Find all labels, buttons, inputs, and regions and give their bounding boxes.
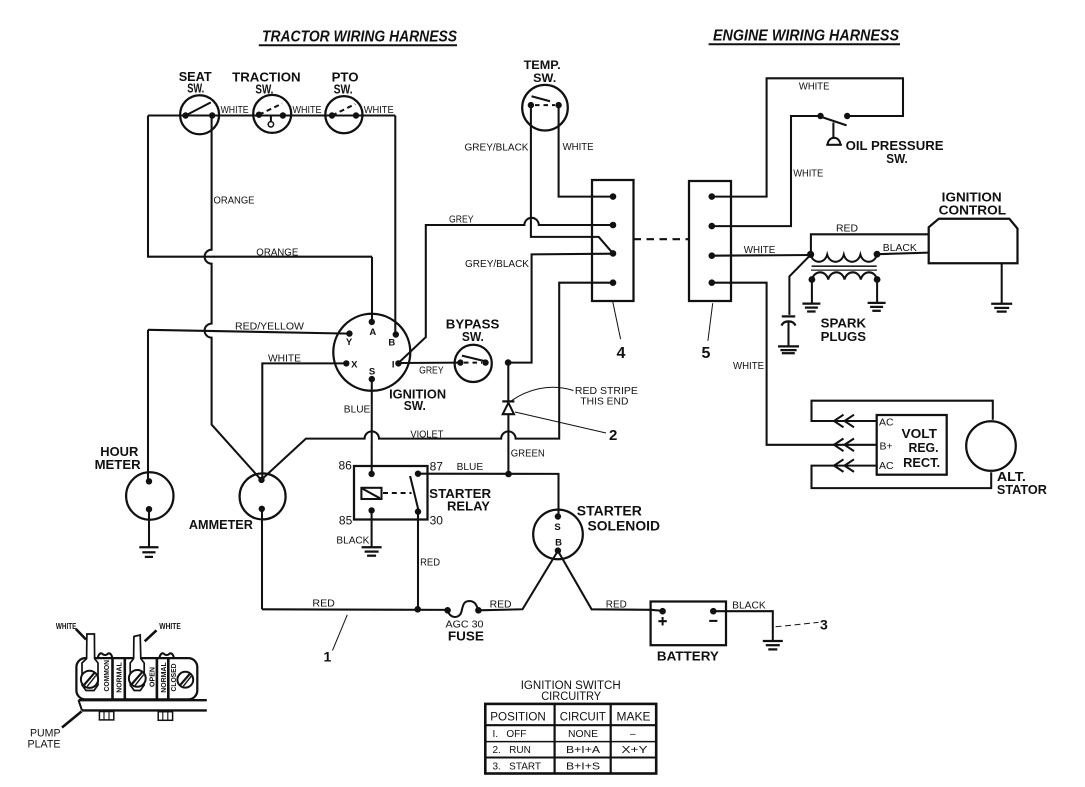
table row 3	[493, 761, 601, 772]
ammeter	[189, 473, 286, 532]
svg-text:CIRCUIT: CIRCUIT	[560, 711, 606, 723]
wire white pin1 to oil pressure right contact	[712, 78, 903, 196]
leader white pump left	[76, 629, 86, 640]
wire orange seat sw down with hops to ammeter	[205, 116, 262, 480]
hour meter	[95, 444, 174, 520]
ignition coil secondary winding	[809, 272, 881, 283]
wire blue ignition S to relay 86	[371, 379, 373, 474]
svg-text:WHITE: WHITE	[221, 105, 249, 116]
battery	[651, 602, 726, 664]
svg-text:86: 86	[339, 458, 353, 472]
wire white pin4 to B+ volt reg	[712, 283, 877, 445]
ground (capacitor)	[778, 346, 799, 353]
svg-text:X+Y: X+Y	[622, 745, 648, 756]
leader white pump right	[145, 630, 157, 641]
svg-text:PLUGS: PLUGS	[821, 329, 867, 344]
pump column bar 1	[111, 658, 114, 699]
wire hour meter to ground	[148, 509, 150, 547]
pump terminal tab 2 white wire	[130, 635, 144, 691]
svg-text:AMMETER: AMMETER	[189, 517, 254, 532]
node coil junction	[807, 251, 814, 258]
wire grey ignition I to bypass	[398, 362, 460, 364]
wire secondary left to ground	[811, 280, 813, 304]
wire red solenoid B to battery +	[558, 551, 663, 611]
volt reg rect box	[877, 415, 947, 475]
label RED STRIPE THIS END	[575, 386, 638, 407]
svg-text:2. RUN: 2. RUN	[493, 745, 531, 756]
wire red/yellow to ignition Y	[148, 330, 349, 334]
wire dashed connector mate	[634, 238, 690, 240]
ground (ignition control)	[991, 304, 1012, 312]
wire B drop from white bus	[394, 116, 396, 335]
svg-text:RECT.: RECT.	[903, 455, 940, 470]
svg-text:MAKE: MAKE	[617, 711, 651, 723]
svg-text:WHITE: WHITE	[793, 169, 823, 180]
leader red stripe this end	[512, 387, 574, 400]
leader 1	[333, 615, 348, 651]
node green/blue junction	[505, 471, 512, 478]
wire white temp sw to connector pin 1	[559, 105, 613, 197]
svg-text:NONE: NONE	[568, 729, 598, 740]
svg-text:REG.: REG.	[909, 440, 939, 455]
svg-text:SW.: SW.	[187, 81, 204, 96]
ground (relay 85)	[362, 547, 382, 555]
diode (red stripe end up)	[502, 401, 514, 414]
wire left vertical seat sw to orange corner	[148, 116, 372, 257]
svg-text:WHITE: WHITE	[733, 361, 764, 372]
svg-text:B+I+S: B+I+S	[566, 761, 600, 772]
svg-text:85: 85	[339, 514, 353, 528]
svg-text:SW.: SW.	[404, 398, 426, 413]
svg-text:WHITE: WHITE	[293, 105, 322, 116]
pump nut 2	[158, 712, 172, 721]
wire green junction to diode	[507, 363, 509, 402]
wire green diode to blue junction	[507, 414, 509, 474]
svg-text:RED/YELLOW: RED/YELLOW	[235, 322, 305, 333]
leader pump plate	[62, 711, 82, 727]
spare terminal bump right	[159, 653, 174, 658]
svg-text:TRACTOR WIRING HARNESS: TRACTOR WIRING HARNESS	[262, 29, 457, 46]
svg-text:SW.: SW.	[255, 81, 273, 96]
svg-text:WHITE: WHITE	[56, 621, 77, 631]
starter relay box	[354, 466, 428, 520]
switch TEMP SW.	[522, 60, 568, 131]
alt stator circle	[966, 421, 1047, 497]
ignition switch circle	[333, 314, 410, 391]
svg-text:CONTROL: CONTROL	[939, 202, 1007, 217]
table title IGNITION SWITCH CIRCUITRY	[521, 680, 621, 703]
svg-text:FUSE: FUSE	[448, 629, 484, 644]
svg-text:30: 30	[430, 514, 444, 528]
connector chevrons AC bottom	[834, 459, 854, 472]
svg-text:CIRCUITRY: CIRCUITRY	[541, 691, 601, 703]
svg-text:GREEN: GREEN	[511, 449, 545, 460]
pump terminal tab 1 white wire	[82, 634, 98, 691]
ground (spark left)	[802, 304, 820, 312]
svg-text:B: B	[388, 338, 395, 349]
svg-text:3: 3	[820, 617, 828, 633]
svg-text:AC: AC	[879, 416, 894, 428]
svg-text:ORANGE: ORANGE	[256, 248, 298, 259]
wire ammeter to red rail	[261, 509, 263, 610]
wire orange drop to ignition A	[371, 257, 373, 322]
svg-text:VIOLET: VIOLET	[410, 429, 443, 440]
pump plate terminal block	[76, 658, 197, 699]
pump nut 1	[99, 712, 113, 720]
svg-text:WHITE: WHITE	[364, 105, 394, 116]
wire white pin3 to coil junction	[712, 254, 811, 257]
ignition control box	[929, 190, 1018, 264]
title TRACTOR WIRING HARNESS	[259, 29, 457, 46]
svg-text:S: S	[369, 366, 375, 377]
svg-text:METER: METER	[95, 457, 142, 472]
svg-text:TEMP.: TEMP.	[524, 60, 561, 72]
wire black coil to ignition control	[877, 253, 929, 255]
wire AC top to alt stator	[812, 401, 993, 421]
svg-text:ORANGE: ORANGE	[214, 196, 255, 207]
svg-text:STARTER: STARTER	[577, 504, 642, 519]
coil core	[811, 266, 877, 270]
svg-text:RELAY: RELAY	[447, 498, 490, 513]
pump screw 3	[177, 672, 193, 688]
wire white ignition X to ammeter	[262, 363, 346, 480]
spare terminal bump left	[98, 653, 113, 658]
svg-text:Y: Y	[346, 337, 353, 348]
switch SEAT SW.	[179, 69, 219, 134]
svg-text:3. START: 3. START	[493, 761, 542, 772]
starter solenoid	[533, 504, 660, 560]
svg-text:WHITE: WHITE	[744, 245, 776, 256]
svg-text:WHITE: WHITE	[799, 81, 830, 92]
wire grey/black bypass to connector pin 3	[508, 254, 613, 363]
ignition coil primary winding	[811, 255, 877, 262]
wire grey ignition I to connector pin 2 (hop over grey/black)	[398, 218, 613, 363]
svg-text:BATTERY: BATTERY	[657, 649, 719, 664]
switch TRACTION SW.	[232, 70, 301, 133]
svg-text:ENGINE WIRING HARNESS: ENGINE WIRING HARNESS	[713, 28, 899, 45]
wire junction to capacitor	[789, 255, 810, 315]
label STARTER RELAY	[429, 486, 492, 513]
svg-text:BLACK: BLACK	[732, 600, 766, 611]
svg-text:SW.: SW.	[334, 81, 353, 96]
node relay 30 rail junction	[414, 606, 421, 613]
svg-text:SW.: SW.	[886, 151, 908, 166]
wire relay 85 to ground	[371, 510, 373, 547]
wire red coil junction to ignition control	[811, 234, 929, 254]
svg-text:A: A	[369, 327, 376, 338]
label PUMP PLATE	[28, 728, 61, 751]
svg-text:NORMAL: NORMAL	[115, 662, 124, 693]
wire white bus seat/traction/pto	[148, 114, 395, 116]
svg-text:RED: RED	[836, 224, 858, 235]
connector 5	[689, 181, 731, 301]
wire hour meter riser	[147, 330, 149, 482]
switch OIL PRESSURE SW.	[817, 113, 944, 166]
title ENGINE WIRING HARNESS	[709, 28, 900, 45]
switch PTO SW.	[325, 70, 362, 134]
pump screw 1	[81, 671, 98, 688]
pump column bar 4	[167, 658, 170, 699]
svg-text:WHITE: WHITE	[159, 621, 181, 631]
wire black battery - to ground	[713, 611, 773, 641]
connector chevrons AC top	[834, 415, 854, 428]
svg-text:STATOR: STATOR	[997, 482, 1048, 497]
svg-text:OPEN: OPEN	[148, 667, 157, 687]
pump column bar 3	[156, 658, 159, 699]
wire red rail ammeter to fuse	[262, 608, 448, 611]
pump screw 2	[129, 670, 146, 687]
svg-text:GREY: GREY	[419, 366, 444, 377]
svg-text:WHITE: WHITE	[268, 353, 301, 364]
ground (spark right)	[868, 303, 886, 311]
svg-text:VOLT: VOLT	[902, 426, 938, 441]
svg-text:X: X	[351, 359, 358, 370]
switch BYPASS SW.	[446, 317, 500, 382]
svg-text:GREY/BLACK: GREY/BLACK	[465, 143, 529, 154]
table ignition switch circuitry	[485, 704, 656, 774]
svg-text:PLATE: PLATE	[28, 739, 61, 751]
svg-text:1: 1	[324, 649, 332, 665]
svg-text:SW.: SW.	[462, 329, 484, 344]
wire capacitor to ground	[787, 323, 789, 347]
svg-text:WHITE: WHITE	[563, 142, 594, 153]
leader 5	[708, 303, 713, 341]
wire grey/black temp sw to connector pin 3	[531, 105, 613, 253]
svg-text:B: B	[555, 537, 562, 548]
capacitor	[782, 316, 796, 325]
wire red fuse to solenoid B	[478, 551, 558, 610]
label IGNITION SW.	[389, 386, 446, 413]
node bypass output junction	[505, 359, 512, 366]
svg-text:SW.: SW.	[533, 73, 556, 85]
wire violet ammeter to connector pin 4 (hops)	[261, 283, 613, 480]
ground (battery)	[763, 641, 783, 649]
svg-text:4: 4	[617, 345, 626, 362]
node coil right end	[874, 251, 881, 258]
wire blue relay 87 to solenoid S	[418, 474, 559, 517]
connector chevrons B+ line	[834, 439, 854, 452]
label SPARK PLUGS	[821, 316, 867, 344]
fuse AGC 30	[444, 601, 481, 617]
pump column bar 2	[124, 658, 127, 699]
svg-text:POSITION: POSITION	[490, 711, 546, 723]
wire ignition control to ground	[1001, 263, 1003, 303]
svg-text:B+: B+	[880, 441, 893, 453]
svg-text:2: 2	[609, 427, 617, 444]
svg-text:RED: RED	[490, 599, 512, 610]
wire red relay 30 to rail	[417, 512, 419, 610]
svg-text:GREY/BLACK: GREY/BLACK	[465, 259, 529, 270]
svg-text:GREY: GREY	[449, 215, 474, 226]
svg-text:87: 87	[430, 459, 444, 473]
wire secondary right to ground	[876, 280, 878, 303]
svg-text:BLUE: BLUE	[457, 462, 484, 473]
svg-text:BLACK: BLACK	[336, 535, 369, 546]
svg-text:BLACK: BLACK	[883, 243, 917, 254]
svg-text:–: –	[630, 729, 636, 740]
table row 2	[493, 745, 648, 756]
pump plate bar	[79, 700, 207, 710]
svg-text:RED: RED	[606, 599, 627, 610]
svg-text:S: S	[554, 522, 560, 533]
svg-text:I. OFF: I. OFF	[493, 729, 527, 740]
svg-text:COMMON: COMMON	[102, 660, 111, 692]
leader 2	[515, 412, 606, 433]
wire AC bottom to alt stator	[812, 466, 992, 489]
leader 3	[776, 622, 819, 626]
ground (hour meter)	[139, 547, 158, 557]
svg-text:THIS END: THIS END	[580, 396, 628, 407]
table row 1	[493, 729, 637, 740]
svg-text:RED STRIPE: RED STRIPE	[575, 386, 638, 397]
connector 4	[592, 180, 634, 301]
svg-text:RED: RED	[420, 557, 440, 568]
svg-text:SOLENOID: SOLENOID	[588, 519, 661, 534]
svg-text:5: 5	[702, 345, 711, 362]
svg-text:BLUE: BLUE	[344, 404, 371, 415]
svg-text:NORMAL: NORMAL	[159, 662, 168, 693]
wire white pin2 to oil pressure left contact	[712, 116, 821, 226]
svg-text:CLOSED: CLOSED	[169, 663, 178, 691]
svg-text:I: I	[392, 359, 395, 370]
svg-text:RED: RED	[312, 598, 335, 609]
svg-text:B+I+A: B+I+A	[566, 745, 600, 756]
leader 4	[613, 302, 621, 340]
svg-text:AC: AC	[879, 460, 894, 472]
